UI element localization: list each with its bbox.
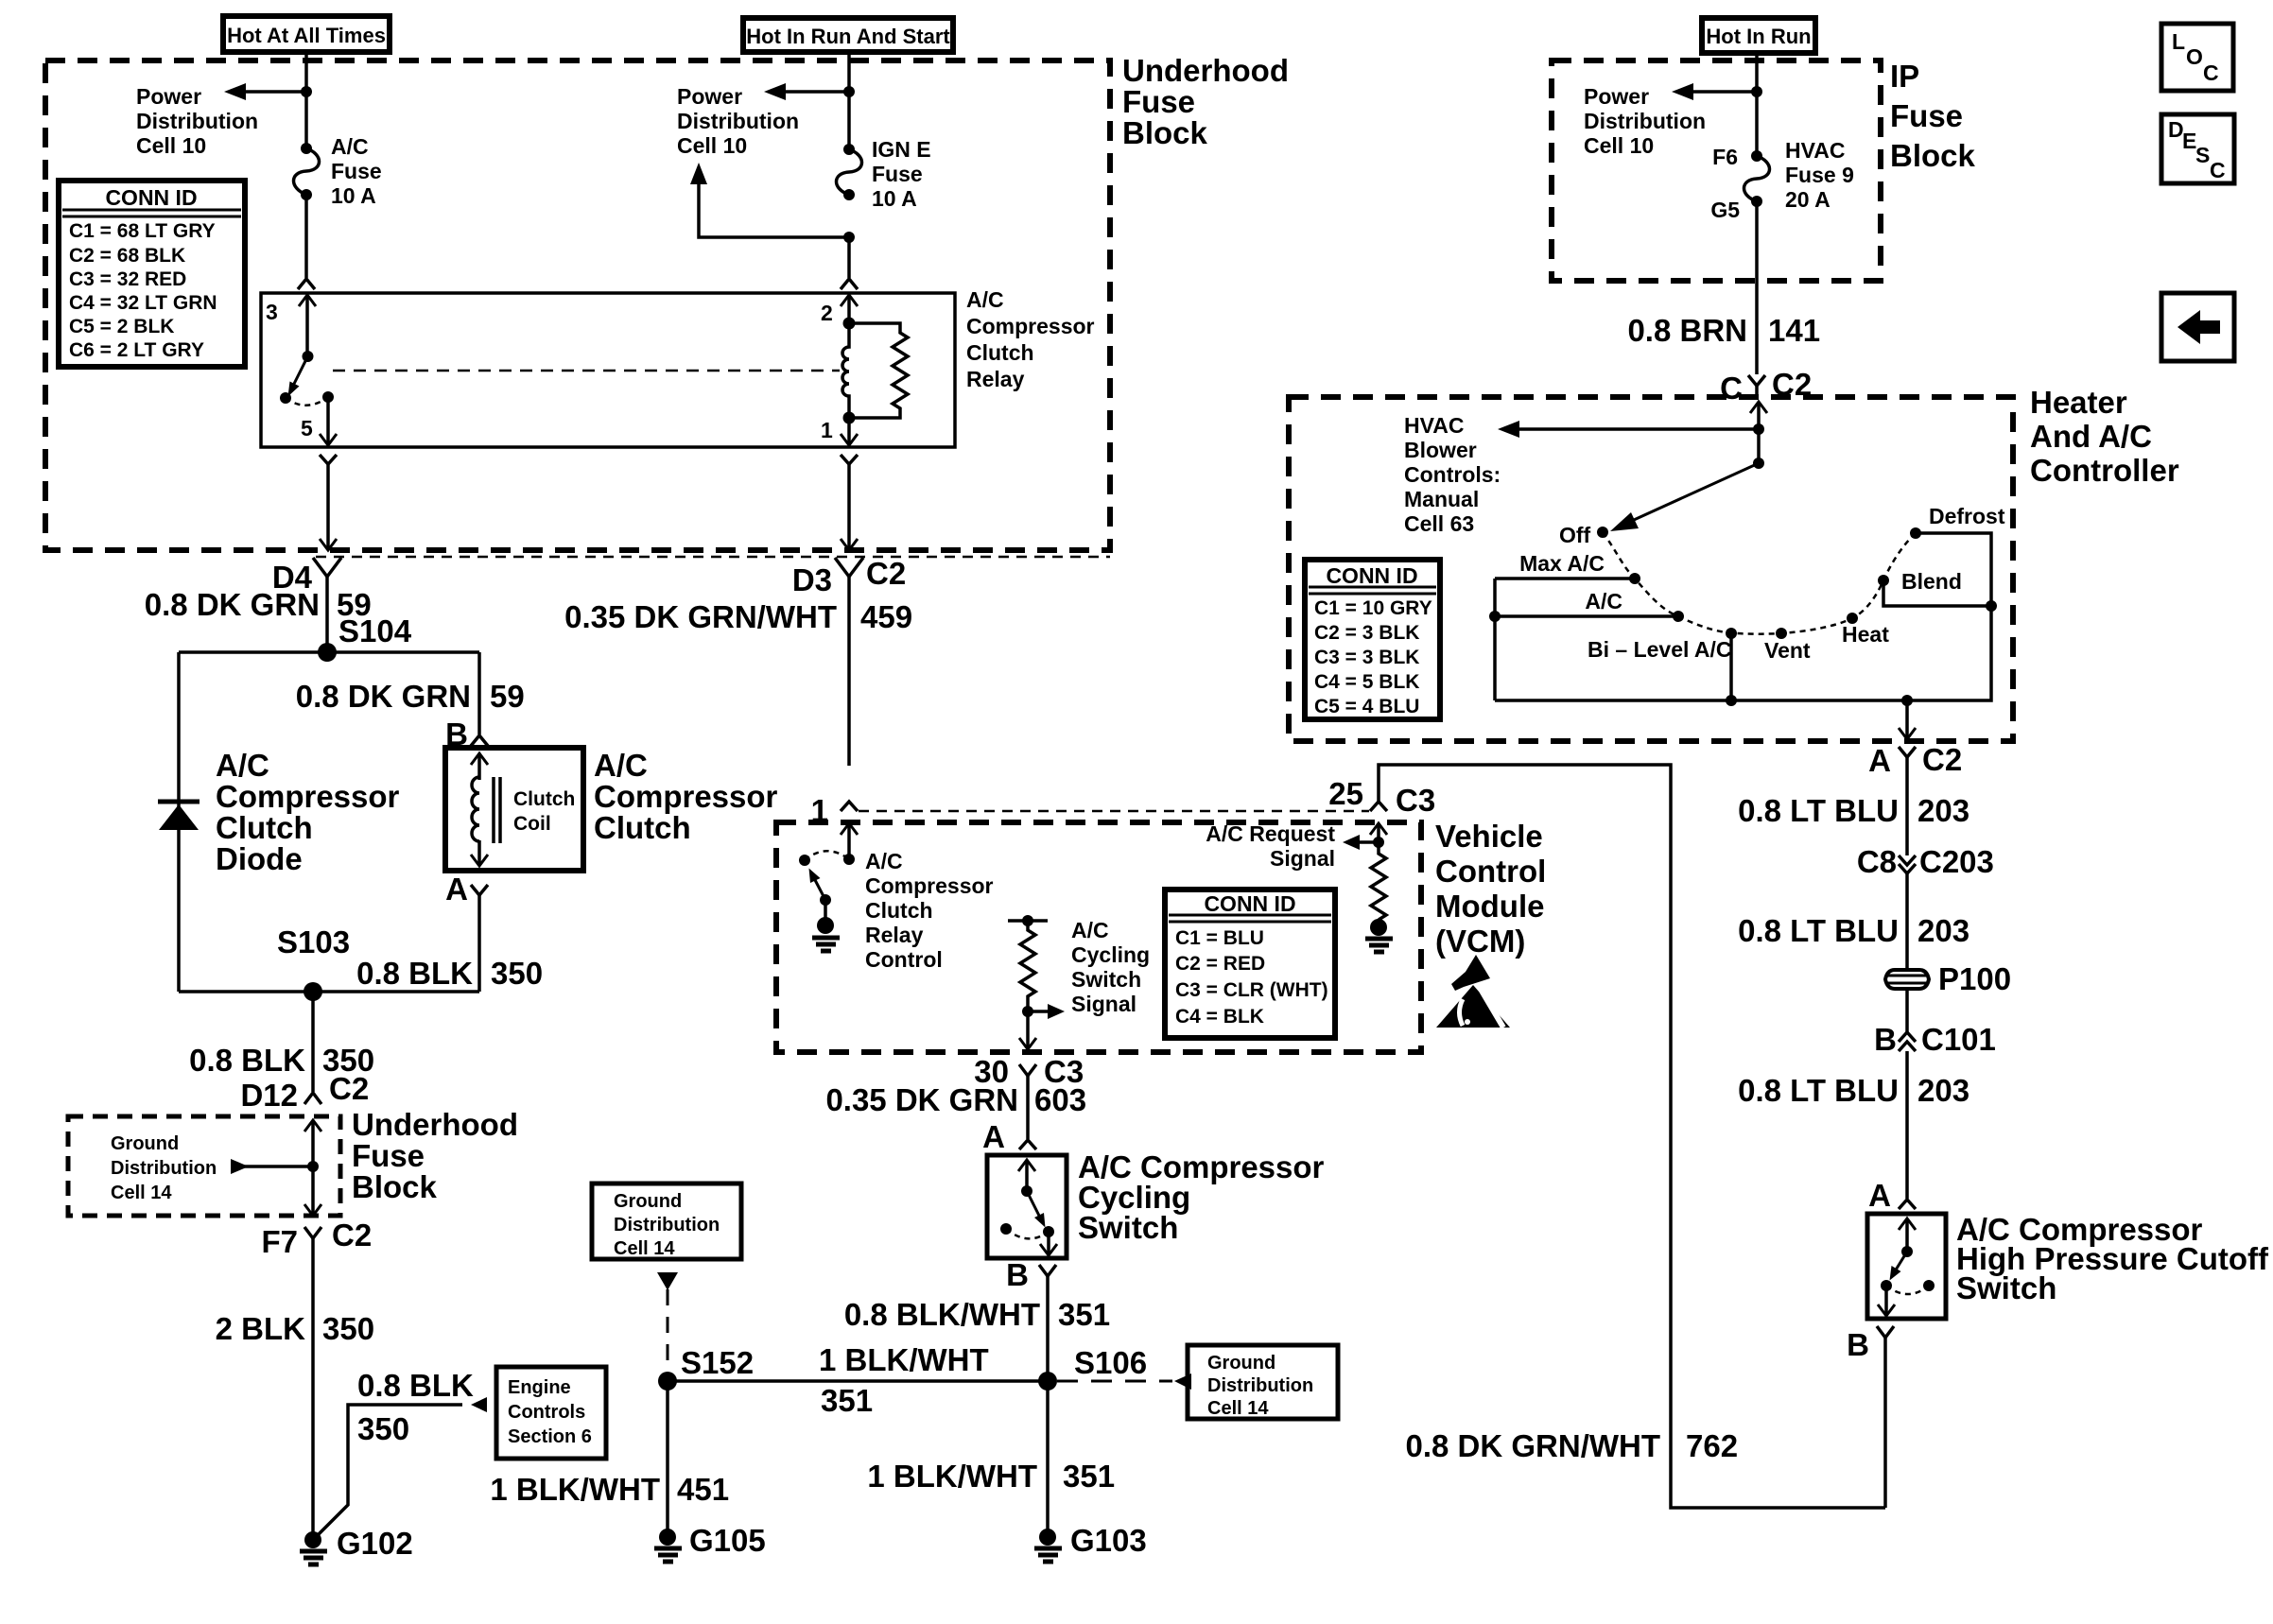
node S106 [1038, 1345, 1147, 1391]
fuse HVAC Fuse 9 20 A [1710, 138, 1854, 222]
ground distribution dashed box (left) [68, 1116, 340, 1216]
rotary Bi-Level position [1588, 628, 1737, 706]
svg-text:141: 141 [1768, 313, 1820, 348]
svg-text:351: 351 [1058, 1297, 1110, 1332]
svg-text:Module: Module [1435, 889, 1544, 924]
svg-text:Cell 10: Cell 10 [1584, 133, 1654, 158]
svg-text:C2: C2 [329, 1071, 369, 1106]
svg-text:Cycling: Cycling [1071, 942, 1150, 967]
svg-text:G105: G105 [689, 1523, 766, 1558]
svg-text:351: 351 [821, 1383, 873, 1418]
svg-text:350: 350 [322, 1311, 374, 1346]
relay switch contact dot [280, 392, 291, 404]
svg-text:3: 3 [266, 300, 278, 324]
connector chevron VCM pin 1 [841, 802, 858, 811]
svg-text:Clutch: Clutch [865, 898, 933, 923]
svg-text:C8: C8 [1857, 844, 1897, 879]
svg-text:0.8 DK GRN: 0.8 DK GRN [145, 587, 320, 622]
svg-text:Underhood: Underhood [1122, 53, 1289, 88]
connector face line C3 (thin dashed) [859, 810, 1369, 813]
svg-text:Controls:: Controls: [1404, 462, 1501, 487]
wire rotary output bus [1495, 606, 1991, 700]
connector face line C2 (thin dashed) [316, 556, 1110, 559]
svg-text:Heater: Heater [2030, 385, 2127, 420]
svg-text:459: 459 [860, 599, 912, 634]
wire HVAC fuse to C C2 [1755, 201, 1759, 374]
svg-text:Block: Block [352, 1169, 438, 1204]
ground distribution reference box (center) [592, 1183, 741, 1259]
A/C request signal resistor [1343, 823, 1387, 920]
svg-text:762: 762 [1686, 1428, 1738, 1463]
svg-text:0.8 LT BLU: 0.8 LT BLU [1738, 913, 1899, 948]
relay switch throw arc [286, 397, 328, 406]
svg-text:Fuse 9: Fuse 9 [1785, 163, 1854, 187]
heater feed entry arrow [1750, 402, 1767, 463]
svg-text:D3: D3 [792, 562, 832, 597]
connector C8 C203 [1857, 844, 1994, 970]
svg-text:59: 59 [490, 679, 525, 714]
svg-text:Relay: Relay [966, 367, 1025, 391]
svg-text:1 BLK/WHT: 1 BLK/WHT [490, 1472, 660, 1507]
connector A C2 (heater exit) [1868, 742, 1962, 855]
connector D4 [272, 558, 341, 652]
fuse IGN E Fuse 10 A [837, 137, 931, 211]
wire label 0.8 DK GRN 59 (S104) [145, 587, 412, 648]
svg-text:C3 = 32 RED: C3 = 32 RED [69, 268, 186, 290]
svg-text:10 A: 10 A [872, 186, 917, 211]
svg-text:451: 451 [677, 1472, 729, 1507]
wire label 0.8 BRN 141 [1627, 313, 1820, 348]
svg-text:C2: C2 [866, 556, 906, 591]
node rotary feed [1753, 458, 1764, 469]
wire Hot In Run to HVAC fuse [1755, 53, 1759, 156]
svg-text:Cell 14: Cell 14 [1207, 1398, 1269, 1419]
rotary Heat position [1842, 613, 1889, 647]
svg-text:A/C: A/C [1585, 589, 1622, 613]
cycling switch element [1000, 1160, 1057, 1255]
svg-text:A/C: A/C [594, 748, 648, 783]
ground G103 [1034, 1523, 1147, 1562]
svg-text:351: 351 [1063, 1459, 1115, 1494]
svg-text:Fuse: Fuse [331, 159, 382, 183]
VCM dashed box [776, 819, 1546, 1052]
svg-text:2: 2 [821, 301, 833, 325]
wire label 1 BLK/WHT 351 (G103) [867, 1459, 1115, 1494]
svg-text:Power: Power [1584, 84, 1649, 109]
ground G105 [654, 1523, 766, 1562]
wire branch with up arrow [690, 163, 849, 237]
svg-text:O: O [2186, 44, 2203, 69]
svg-text:203: 203 [1917, 1073, 1969, 1108]
ground symbol (relay control) [812, 917, 840, 951]
svg-text:C: C [2203, 60, 2219, 85]
relay actuation dashed line [333, 370, 840, 372]
wire S106 ground distribution reference (dashed) [1057, 1373, 1191, 1390]
svg-text:HVAC: HVAC [1785, 138, 1845, 163]
svg-text:Block: Block [1890, 138, 1976, 173]
svg-text:C2: C2 [1922, 742, 1962, 777]
IP fuse block dashed box [1552, 59, 1976, 281]
svg-text:Ground: Ground [614, 1191, 682, 1212]
CONN ID table (underhood C1-C6) [59, 181, 245, 367]
svg-text:A/C Request: A/C Request [1206, 821, 1335, 846]
relay pin 1 exit arrow [841, 418, 858, 445]
rotary Max A/C position [1495, 551, 1640, 584]
fuse A/C Fuse 10 A [294, 134, 382, 208]
connector tag Hot In Run And Start [743, 18, 953, 52]
svg-text:A: A [1868, 1178, 1891, 1213]
node ground distribution tap [307, 1161, 319, 1172]
svg-text:0.8 DK GRN/WHT: 0.8 DK GRN/WHT [1405, 1428, 1660, 1463]
relay A/C Compressor Clutch Relay [261, 287, 1095, 447]
svg-text:Fuse: Fuse [352, 1138, 425, 1173]
node power distribution tap (right) [843, 86, 855, 97]
A/C Compressor Cycling Switch box [987, 1149, 1325, 1258]
svg-text:Hot In Run And Start: Hot In Run And Start [746, 25, 950, 48]
svg-text:Clutch: Clutch [216, 810, 313, 845]
connector A (clutch) [471, 885, 488, 992]
svg-text:C5 = 4 BLU: C5 = 4 BLU [1314, 696, 1419, 717]
svg-text:Cell 10: Cell 10 [677, 133, 747, 158]
svg-text:Ground: Ground [1207, 1353, 1275, 1373]
underhood fuse block label (lower) [352, 1107, 518, 1204]
connector chevron B (clutch) [471, 735, 488, 746]
svg-text:C4 = BLK: C4 = BLK [1175, 1006, 1264, 1028]
svg-text:Block: Block [1122, 115, 1208, 150]
wire label 0.8 BLK 350 (S103) [189, 1043, 374, 1078]
svg-text:C4 = 32 LT GRN: C4 = 32 LT GRN [69, 292, 217, 314]
rotary switch arc [1603, 532, 1916, 634]
node blend/defrost join [1986, 600, 1997, 612]
ground distribution dashed arrow (S152) [657, 1272, 678, 1372]
ground distribution reference box (right) [1188, 1345, 1338, 1419]
svg-text:S103: S103 [277, 924, 350, 959]
svg-text:Heat: Heat [1842, 622, 1889, 647]
label HVAC Blower Controls: Manual Cell 63 [1404, 413, 1501, 536]
svg-text:A/C: A/C [1071, 918, 1109, 942]
wire power distribution arrow (IP) [1584, 83, 1757, 158]
svg-text:(VCM): (VCM) [1435, 924, 1525, 959]
svg-text:Clutch: Clutch [594, 810, 691, 845]
svg-text:Signal: Signal [1270, 846, 1335, 871]
wire power distribution arrow (right) [677, 83, 849, 158]
svg-text:And A/C: And A/C [2030, 419, 2152, 454]
svg-text:Hot In Run: Hot In Run [1706, 25, 1811, 48]
connector C C2 [1720, 367, 1812, 406]
wire S103 horizontal [179, 990, 479, 993]
cutoff switch element [1878, 1218, 1935, 1316]
connector B C101 [1874, 1022, 1996, 1199]
relay control switch (inside VCM) [799, 823, 858, 919]
svg-text:Controls: Controls [508, 1402, 585, 1423]
wire clutch branch vertical [477, 652, 481, 734]
svg-text:A/C: A/C [216, 748, 269, 783]
svg-text:Underhood: Underhood [352, 1107, 518, 1142]
wire label 0.8 BLK 350 (clutch) [356, 956, 543, 991]
svg-text:C3 = 3 BLK: C3 = 3 BLK [1314, 647, 1419, 668]
svg-text:Fuse: Fuse [1890, 98, 1963, 133]
svg-text:Distribution: Distribution [136, 109, 258, 133]
connector tag Hot In Run [1702, 18, 1815, 53]
relay switch blade [288, 356, 308, 397]
wire from Hot At All Times to fuse [304, 52, 308, 148]
A/C Compressor High Pressure Cutoff Switch box [1867, 1212, 2269, 1319]
wire S152 to G105 [666, 1381, 669, 1537]
rotary switch Off position [1559, 523, 1608, 547]
svg-text:Switch: Switch [1956, 1270, 2056, 1305]
svg-text:S106: S106 [1074, 1345, 1147, 1380]
wire label 1 BLK/WHT 351 [819, 1342, 989, 1418]
ground symbol (A/C request) [1365, 919, 1393, 952]
clutch coil element [471, 753, 575, 866]
svg-text:Blend: Blend [1901, 569, 1962, 594]
component A/C Compressor Clutch box [445, 748, 778, 871]
connector chevron A (cycling switch) [1019, 1140, 1036, 1149]
svg-text:350: 350 [491, 956, 543, 991]
svg-text:603: 603 [1034, 1082, 1086, 1117]
svg-text:C1 = 10 GRY: C1 = 10 GRY [1314, 597, 1432, 619]
label A/C Cycling Switch Signal [1071, 918, 1150, 1016]
wire ground distribution reference arrow [231, 1159, 313, 1174]
Heater And A/C Controller dashed box [1289, 385, 2179, 741]
wire heater exit arrow [1899, 700, 1916, 739]
connector D12 [240, 1071, 369, 1113]
wire label 0.35 DK GRN 603 [825, 1082, 1086, 1117]
svg-text:0.8 BLK: 0.8 BLK [189, 1043, 305, 1078]
node S104 [318, 643, 337, 662]
svg-text:C6 = 2 LT GRY: C6 = 2 LT GRY [69, 339, 204, 361]
wire rotary left bus [1493, 579, 1497, 700]
svg-text:10 A: 10 A [331, 183, 376, 208]
svg-text:G5: G5 [1710, 198, 1740, 222]
svg-text:HVAC: HVAC [1404, 413, 1464, 438]
svg-text:Fuse: Fuse [872, 162, 923, 186]
relay pin 2 arrow [841, 295, 858, 323]
svg-text:P100: P100 [1938, 961, 2011, 996]
svg-text:Cell 10: Cell 10 [136, 133, 206, 158]
svg-text:0.8 BLK/WHT: 0.8 BLK/WHT [844, 1297, 1040, 1332]
svg-text:C203: C203 [1919, 844, 1994, 879]
svg-text:Compressor: Compressor [865, 873, 994, 898]
svg-text:0.8 DK GRN: 0.8 DK GRN [296, 679, 471, 714]
svg-text:0.8 BRN: 0.8 BRN [1627, 313, 1747, 348]
svg-text:Power: Power [136, 84, 201, 109]
svg-text:Vent: Vent [1764, 638, 1811, 663]
relay pin 3 contact arm [299, 295, 316, 362]
svg-text:S104: S104 [338, 613, 412, 648]
wire fuse to relay pin 2 [847, 237, 851, 278]
wire fuse to relay pin 3 [304, 195, 308, 278]
diode A/C Compressor Clutch Diode [158, 748, 400, 876]
wire S103 to D12 [311, 992, 315, 1092]
svg-text:350: 350 [357, 1411, 409, 1446]
svg-text:Control: Control [865, 947, 943, 972]
svg-text:Switch: Switch [1078, 1210, 1178, 1245]
rotary Vent position [1764, 628, 1811, 663]
wire into ground distribution box [304, 1120, 321, 1216]
svg-text:25: 25 [1328, 776, 1363, 811]
wire label 1 BLK/WHT 451 [490, 1472, 729, 1507]
wire label 0.8 DK GRN 59 (clutch) [296, 679, 525, 714]
wire relay pin 1 to D3 [841, 455, 858, 550]
svg-text:C: C [2210, 158, 2226, 182]
node S152 [658, 1345, 754, 1391]
svg-text:Switch: Switch [1071, 967, 1141, 992]
rotary Blend position [1878, 569, 1991, 606]
wire engine controls branch [313, 1397, 487, 1540]
label A/C Compressor Clutch Relay Control [865, 849, 994, 972]
svg-text:1 BLK/WHT: 1 BLK/WHT [867, 1459, 1037, 1494]
connector D3 [792, 556, 906, 766]
svg-text:Section 6: Section 6 [508, 1426, 592, 1447]
connector tag Hot At All Times [223, 16, 390, 52]
connector chevron above relay pin 3 [298, 279, 315, 289]
svg-text:Ground: Ground [111, 1133, 179, 1154]
svg-text:S: S [2195, 143, 2210, 167]
svg-text:5: 5 [301, 416, 313, 441]
svg-text:Manual: Manual [1404, 487, 1479, 511]
svg-text:G103: G103 [1070, 1523, 1147, 1558]
connector chevron A (cutoff switch) [1899, 1200, 1916, 1209]
svg-text:B: B [1847, 1327, 1869, 1362]
LOC reference box [2161, 24, 2233, 91]
svg-text:Relay: Relay [865, 923, 924, 947]
svg-text:C1 = BLU: C1 = BLU [1175, 927, 1264, 949]
cycling switch signal resistor (inside VCM) [1008, 915, 1065, 1049]
wire HVAC blower controls arrow [1498, 421, 1759, 438]
svg-text:C3 = CLR (WHT): C3 = CLR (WHT) [1175, 979, 1328, 1001]
svg-text:Control: Control [1435, 854, 1546, 889]
DESC reference box [2161, 114, 2234, 183]
connector B (cycling switch) [1039, 1265, 1056, 1381]
connector chevron VCM pin 25 [1370, 802, 1387, 811]
rotary A/C position [1489, 589, 1684, 622]
svg-text:C2: C2 [332, 1218, 372, 1253]
svg-text:Fuse: Fuse [1122, 84, 1195, 119]
svg-text:Compressor: Compressor [216, 779, 400, 814]
wire VCM pin 25 to cutoff switch B (762) [1379, 765, 1885, 1508]
svg-text:Defrost: Defrost [1929, 504, 2005, 528]
svg-text:Cell 14: Cell 14 [614, 1238, 675, 1259]
ground G102 [300, 1526, 413, 1564]
connector F7 [261, 1218, 372, 1540]
svg-text:1: 1 [821, 418, 833, 442]
ESD sensitivity symbol [1436, 955, 1510, 1028]
svg-text:C2 = 68 BLK: C2 = 68 BLK [69, 245, 185, 267]
svg-text:C: C [1720, 371, 1743, 406]
svg-text:Off: Off [1559, 523, 1591, 547]
connector chevron above relay pin 2 [841, 279, 858, 289]
wire label 2 BLK 350 [216, 1311, 374, 1346]
wire label 0.8 LT BLU 203 (2) [1738, 913, 1969, 948]
node power distribution tap (left) [301, 86, 312, 97]
svg-text:203: 203 [1917, 793, 1969, 828]
engine controls reference box [496, 1367, 606, 1459]
svg-text:Diode: Diode [216, 841, 303, 876]
CONN ID table (VCM) [1165, 890, 1335, 1038]
svg-text:C2 = 3 BLK: C2 = 3 BLK [1314, 622, 1419, 644]
svg-text:Cell 63: Cell 63 [1404, 511, 1474, 536]
wire label 0.35 DK GRN/WHT 459 [564, 599, 912, 634]
wire label 0.8 DK GRN/WHT 762 [1405, 1428, 1738, 1463]
svg-text:C2 = RED: C2 = RED [1175, 953, 1265, 975]
svg-text:CONN ID: CONN ID [1326, 563, 1417, 588]
relay pin 5 contact [320, 391, 337, 445]
svg-text:0.8 BLK: 0.8 BLK [356, 956, 473, 991]
svg-text:A/C: A/C [865, 849, 903, 873]
svg-text:A: A [1868, 743, 1891, 778]
svg-text:1: 1 [811, 793, 828, 828]
svg-text:S152: S152 [681, 1345, 754, 1380]
wire label 0.8 LT BLU 203 (3) [1738, 1073, 1969, 1108]
svg-text:20 A: 20 A [1785, 187, 1831, 212]
node S103 [277, 924, 350, 1001]
svg-text:Power: Power [677, 84, 742, 109]
svg-text:Max A/C: Max A/C [1519, 551, 1605, 576]
svg-text:Compressor: Compressor [594, 779, 778, 814]
svg-text:Distribution: Distribution [614, 1215, 720, 1235]
svg-text:G102: G102 [337, 1526, 413, 1561]
svg-text:Distribution: Distribution [677, 109, 799, 133]
svg-text:0.8 LT BLU: 0.8 LT BLU [1738, 1073, 1899, 1108]
node relay coil top [843, 318, 856, 330]
svg-text:Coil: Coil [513, 813, 551, 835]
svg-text:Distribution: Distribution [1207, 1375, 1313, 1396]
wire label 0.8 BLK 350 (engine controls) [357, 1368, 474, 1446]
svg-text:Vehicle: Vehicle [1435, 819, 1543, 854]
svg-text:B: B [1006, 1257, 1029, 1292]
wire label 0.8 BLK/WHT 351 [844, 1297, 1110, 1332]
svg-text:A/C: A/C [966, 287, 1004, 312]
svg-text:Distribution: Distribution [1584, 109, 1706, 133]
svg-text:F6: F6 [1712, 145, 1738, 169]
svg-text:IP: IP [1890, 59, 1919, 94]
svg-text:A: A [445, 872, 468, 907]
wire diode branch vertical [177, 652, 181, 992]
svg-text:CONN ID: CONN ID [1204, 891, 1295, 916]
CONN ID table (heater) [1305, 560, 1440, 719]
rotary wiper arrow to Off [1610, 463, 1759, 531]
svg-text:C5 = 2 BLK: C5 = 2 BLK [69, 316, 174, 337]
svg-text:IGN E: IGN E [872, 137, 931, 162]
svg-text:A: A [982, 1119, 1005, 1154]
wire S106 to G103 [1046, 1381, 1050, 1537]
svg-text:0.8 BLK: 0.8 BLK [357, 1368, 474, 1403]
connector B (cutoff switch) [1877, 1326, 1894, 1508]
node rotary output [1901, 695, 1913, 706]
svg-text:D12: D12 [240, 1078, 298, 1113]
svg-text:203: 203 [1917, 913, 1969, 948]
svg-text:0.35 DK GRN: 0.35 DK GRN [825, 1082, 1018, 1117]
svg-text:Signal: Signal [1071, 992, 1136, 1016]
svg-text:A/C: A/C [331, 134, 369, 159]
wire label 0.8 LT BLU 203 (1) [1738, 793, 1969, 828]
svg-text:F7: F7 [261, 1224, 298, 1259]
node power distribution tap (IP) [1751, 86, 1762, 97]
svg-text:C101: C101 [1921, 1022, 1996, 1057]
svg-text:Hot At All Times: Hot At All Times [227, 24, 386, 47]
svg-text:Blower: Blower [1404, 438, 1477, 462]
svg-text:2 BLK: 2 BLK [216, 1311, 306, 1346]
relay resistor [849, 323, 908, 418]
svg-text:B: B [1874, 1022, 1897, 1057]
svg-text:C3: C3 [1396, 783, 1435, 818]
wire S104 horizontal [179, 650, 479, 654]
svg-text:L: L [2172, 29, 2185, 54]
left arrow reference box [2161, 293, 2234, 361]
wire S152 to S106 [668, 1379, 1048, 1383]
svg-text:0.35 DK GRN/WHT: 0.35 DK GRN/WHT [564, 599, 837, 634]
